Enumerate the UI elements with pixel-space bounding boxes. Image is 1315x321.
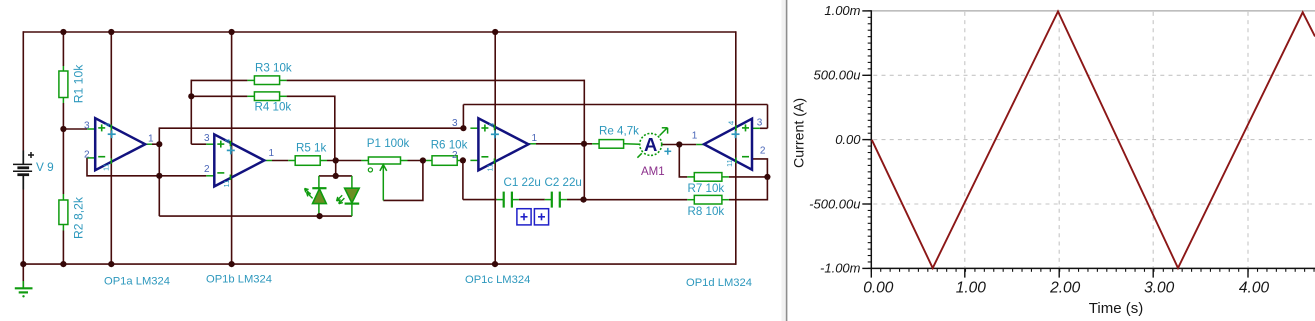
svg-text:4: 4 [223,139,232,143]
svg-text:4.00: 4.00 [1239,279,1270,296]
svg-text:Current (A): Current (A) [792,98,808,168]
svg-text:4: 4 [487,123,496,127]
svg-text:R2 8,2k: R2 8,2k [72,196,86,239]
svg-text:11: 11 [102,163,111,171]
svg-text:500.00u: 500.00u [814,68,861,83]
svg-text:R6 10k: R6 10k [431,139,468,152]
svg-text:AM1: AM1 [641,166,665,178]
svg-text:OP1a LM324: OP1a LM324 [104,276,170,288]
svg-text:OP1c LM324: OP1c LM324 [465,274,530,286]
svg-text:OP1d LM324: OP1d LM324 [686,277,752,289]
svg-text:2.00: 2.00 [1049,279,1081,296]
svg-text:1.00: 1.00 [956,279,987,296]
svg-text:4: 4 [727,121,736,125]
svg-text:V 9: V 9 [36,160,54,174]
svg-text:0.00: 0.00 [863,279,894,296]
svg-text:P1 100k: P1 100k [367,137,410,150]
svg-text:1: 1 [269,148,275,159]
svg-text:-500.00u: -500.00u [809,196,860,211]
svg-text:3: 3 [757,118,763,129]
svg-text:2: 2 [204,164,210,175]
svg-text:A: A [644,134,657,155]
svg-text:2: 2 [760,146,766,157]
svg-text:3: 3 [204,133,210,144]
svg-text:1.00m: 1.00m [824,3,860,18]
svg-text:11: 11 [222,180,231,188]
svg-text:Re 4,7k: Re 4,7k [599,124,639,137]
svg-text:11: 11 [725,159,734,167]
svg-text:11: 11 [485,164,494,172]
svg-text:C2 22u: C2 22u [545,176,582,189]
svg-text:-1.00m: -1.00m [820,261,861,276]
svg-text:1: 1 [692,130,698,141]
svg-text:Time (s): Time (s) [1089,300,1143,317]
svg-text:R4 10k: R4 10k [255,101,292,114]
svg-text:3.00: 3.00 [1144,279,1175,296]
svg-text:R1 10k: R1 10k [71,64,85,104]
svg-text:4: 4 [103,123,112,127]
svg-text:C1 22u: C1 22u [504,176,541,189]
svg-text:OP1b LM324: OP1b LM324 [206,273,272,285]
svg-text:3: 3 [84,120,90,131]
svg-text:2: 2 [84,149,90,160]
svg-text:0.00: 0.00 [835,132,861,147]
svg-text:1: 1 [148,133,154,144]
svg-text:R3 10k: R3 10k [255,62,292,75]
svg-text:3: 3 [452,118,458,129]
svg-text:R7 10k: R7 10k [688,182,725,195]
svg-text:R5 1k: R5 1k [296,142,326,155]
svg-text:R8 10k: R8 10k [688,205,725,218]
svg-text:1: 1 [532,133,538,144]
svg-text:2: 2 [452,150,458,161]
